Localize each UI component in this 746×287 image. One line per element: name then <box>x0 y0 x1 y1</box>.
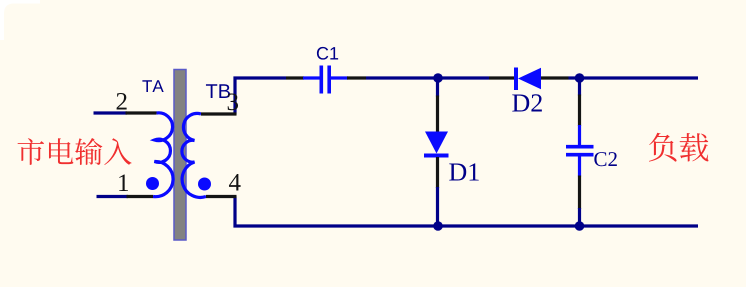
junction node: bottom rail / C2 <box>575 221 585 231</box>
pin number 3 <box>228 93 238 110</box>
pin number 2 <box>117 93 127 110</box>
label TB <box>206 84 230 98</box>
label D1 <box>449 163 478 180</box>
wire: pin-3 riser and top rail left segment <box>235 78 286 115</box>
TA pin 1 lead wire <box>97 195 154 198</box>
transformer TB secondary winding <box>182 113 206 197</box>
capacitor C1 <box>286 66 366 94</box>
transformer TA primary winding <box>153 113 173 197</box>
pin number 4 <box>229 174 241 190</box>
TA polarity dot (pin 1 end) <box>146 177 159 190</box>
wire: top rail right segment (D2 through C2 node to load) <box>569 76 699 79</box>
TB pin 3 lead wire <box>201 112 237 115</box>
capacitor C2 <box>566 78 594 226</box>
junction node: bottom rail / D1 <box>433 221 443 231</box>
label TA <box>142 80 163 92</box>
TB pin 4 lead wire <box>206 195 237 198</box>
TB polarity dot (pin 4 end) <box>198 178 211 191</box>
wire: top rail middle segment (C1 to D2, through D1 node) <box>366 76 489 79</box>
pin number 1 <box>119 174 128 191</box>
net label: load (fu zai) <box>649 133 709 162</box>
junction node: top rail / C2 <box>575 73 585 83</box>
label C2 <box>594 152 616 166</box>
TA pin 2 lead wire <box>94 111 157 114</box>
diode D2 <box>489 68 569 91</box>
label C1 <box>317 47 338 60</box>
transformer core bar <box>174 70 186 241</box>
label D2 <box>512 94 542 111</box>
net label: mains input (shi dian shu ru) <box>18 138 132 165</box>
wire: pin-4 drop and bottom rail <box>235 197 698 227</box>
junction node: top rail / D1 <box>433 73 443 83</box>
diode D1 <box>424 78 449 226</box>
